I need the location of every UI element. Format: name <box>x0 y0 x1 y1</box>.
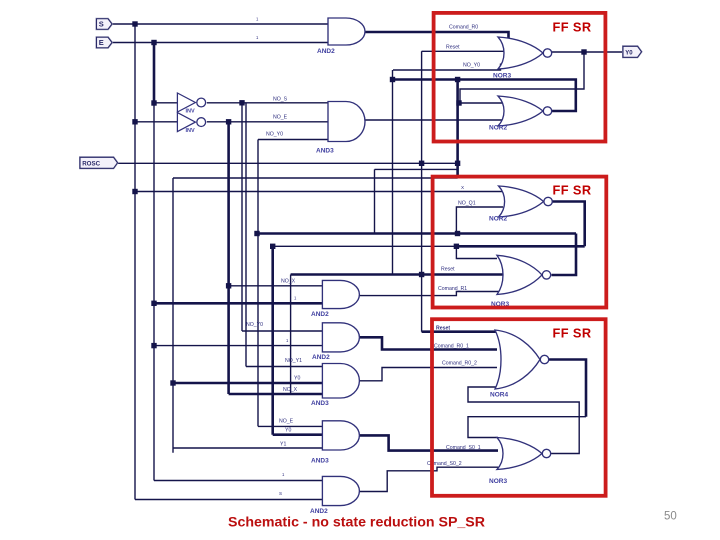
svg-text:Reset: Reset <box>441 266 455 272</box>
and-gate U1 AND2 <box>317 18 365 55</box>
svg-text:NOR3: NOR3 <box>493 73 511 80</box>
svg-text:X: X <box>461 185 464 190</box>
wire: E trunk elbow to AND2 U7 input 1 <box>154 480 322 482</box>
svg-text:Reset: Reset <box>446 44 460 50</box>
junction E trunk top <box>151 40 156 45</box>
wire: E vertical trunk x=154 <box>153 43 156 104</box>
and-gate U5 AND2 <box>311 280 359 318</box>
junction Reset trunk at box2 <box>419 272 424 277</box>
wire: Y1 feedback elbow to NOR3 U12 input 1 <box>456 246 497 258</box>
wire: E input net horizontal to AND2 U1 <box>112 42 328 44</box>
nor-gate U9 NOR2 box2 top <box>489 186 552 223</box>
svg-text:AND2: AND2 <box>317 48 335 55</box>
wire: AND3 U10 output to NOR4 U13 input 3 <box>360 368 498 381</box>
junction Y0 distribution y=383 <box>170 380 175 385</box>
junction NO_Y1 bus at box2 <box>455 231 460 236</box>
svg-text:NOR4: NOR4 <box>490 392 508 399</box>
junction Y0 at NOR2 U11 input <box>456 100 461 105</box>
wire: Q2 feedback staircase NOR4 U13 to NOR3 U14 input 1 <box>546 360 587 417</box>
svg-text:NO_S: NO_S <box>273 97 288 103</box>
wire: Reset vertical trunk x=421.6 <box>421 51 423 331</box>
output port Y0 <box>623 46 642 57</box>
wire: elbow x=258 to AND3 U6b input 1 <box>258 425 322 427</box>
nor-gate U11 NOR2 box1 bottom <box>489 96 552 132</box>
highlight box FF SR 1 <box>434 13 606 142</box>
svg-text:NO_X: NO_X <box>283 387 298 393</box>
svg-text:Comand_S0_1: Comand_S0_1 <box>446 445 481 451</box>
wire: Reset thick into NOR3 U12 input 2 <box>291 273 503 276</box>
junction Y1 net at box2 <box>454 244 459 249</box>
wire: NO_Y1 thick bus y=233.5 <box>257 232 576 235</box>
wire: vertical x=290.6 stub <box>290 275 292 395</box>
junction Reset trunk at port wire <box>419 161 424 166</box>
wire: AND2 U6 thick output to NOR4 U13 input 2 <box>360 337 498 349</box>
svg-text:1: 1 <box>282 472 285 477</box>
wire: NO_Y0 trunk branch y=169.4 to x=374.5 <box>375 168 458 170</box>
junction NO_E trunk y=285 <box>226 283 231 288</box>
svg-text:Comand_R0_2: Comand_R0_2 <box>442 361 477 367</box>
wire: NO_Y0 thick feedback from NOR2 U11 output <box>393 80 576 112</box>
svg-text:Y1: Y1 <box>280 441 286 447</box>
svg-text:FF SR: FF SR <box>553 183 592 198</box>
svg-text:NO_E: NO_E <box>273 115 288 121</box>
junction E trunk at INV U2 input <box>151 100 156 105</box>
wire: NO_Y0 net elbow into NOR3 U8 input 3 <box>393 64 501 71</box>
svg-text:AND3: AND3 <box>311 400 329 407</box>
wire: S vertical trunk x=135 <box>134 24 136 500</box>
wire: Reset port horizontal <box>118 162 459 164</box>
svg-text:NOR2: NOR2 <box>489 125 507 132</box>
wire: Y1 net from NOR2 U9 output <box>549 202 585 247</box>
wire: INV U3 output to AND3 U4 input 2 <box>207 121 328 123</box>
wire: NO_Y2 feedback staircase NOR3 U14 to NOR4 U13 input 4 <box>468 387 579 454</box>
svg-text:Y0: Y0 <box>294 376 300 382</box>
junction S trunk top <box>132 21 137 26</box>
svg-text:AND2: AND2 <box>311 311 329 318</box>
junction NO_Y1 bus at x=257 <box>254 231 259 236</box>
svg-text:E: E <box>99 38 104 47</box>
svg-text:1: 1 <box>294 296 297 301</box>
wire: E trunk branch to AND2 U6 input 2 <box>154 345 322 347</box>
junction Y0 output node <box>581 49 586 54</box>
and-gate U4 AND3 <box>316 102 365 155</box>
junction E trunk y=345 <box>151 343 156 348</box>
wire: S input net horizontal to AND2 U1 <box>112 23 328 25</box>
svg-text:ROSC: ROSC <box>82 160 100 167</box>
highlight box FF SR 2 <box>433 177 607 308</box>
nor-gate U13 NOR4 box3 top <box>490 330 549 399</box>
svg-text:NOR3: NOR3 <box>489 478 507 485</box>
svg-text:Schematic - no state reduction: Schematic - no state reduction SP_SR <box>228 515 485 531</box>
wire: Y0 branch down from junction <box>460 52 584 103</box>
svg-text:1: 1 <box>256 35 259 40</box>
junction NO_Y0 trunk top <box>455 77 460 82</box>
svg-text:AND3: AND3 <box>316 148 334 155</box>
svg-text:NOR2: NOR2 <box>489 216 507 223</box>
nor-gate U12 NOR3 box2 bottom <box>491 255 551 308</box>
svg-text:AND3: AND3 <box>311 458 329 465</box>
junction NO_Y0 feedback <box>390 77 395 82</box>
wire: Y0 junction to NOR2 U11 input 1 <box>460 102 503 104</box>
junction Y1 trunk corner <box>270 244 275 249</box>
wire: NO_Y0 trunk elbow y=178 to x=173 <box>173 177 458 179</box>
svg-text:NO_Y0: NO_Y0 <box>463 63 480 69</box>
wire: NOR2 U9 input 2 elbow from NO_Y1 bus <box>456 207 503 234</box>
wire: Reset thick elbow into NOR4 U13 input 1 <box>422 330 497 333</box>
wire: NO_Y1 vertical x=258 <box>257 140 259 427</box>
wire: elbow x=173 to AND3 U6b input 3 <box>173 447 322 449</box>
junction NO_Y0 trunk at Reset wire <box>455 161 460 166</box>
junction S trunk at INV U3 input <box>132 119 137 124</box>
wire: INV U2 input stub <box>154 102 177 104</box>
svg-text:NO_X: NO_X <box>281 279 296 285</box>
wire: thick elbow to AND3 U10 input 3 <box>229 393 323 396</box>
svg-text:NO_Y1: NO_Y1 <box>285 358 302 364</box>
svg-text:Comand_R0: Comand_R0 <box>449 25 478 31</box>
wire: AND3 U6b thick output to NOR3 U14 input 2 <box>360 435 499 450</box>
svg-text:1: 1 <box>286 338 289 343</box>
wire: S trunk branch y=191 to NOR2 U9 input 1 <box>135 191 503 193</box>
svg-text:NO_Q1: NO_Q1 <box>458 201 476 207</box>
wire: Y1 thick vertical x=272.7 <box>271 246 274 434</box>
inverter U2 INV <box>177 93 205 114</box>
wire: NO_Y1 bus riser from NOR3 U12 output <box>552 234 577 276</box>
wire: AND3 U4 input 3 elbow from NO_Y1 vertical <box>258 139 328 141</box>
wire: NO_Y0 vertical x=392.5 <box>392 70 394 275</box>
nor-gate U8 NOR3 box1 top <box>493 37 552 80</box>
svg-text:Comand_R1: Comand_R1 <box>438 286 467 292</box>
inverter U3 INV <box>177 113 205 134</box>
svg-text:FF SR: FF SR <box>553 326 592 341</box>
wire: NO_E thick vertical x=228.6 from inverter output <box>227 122 230 394</box>
svg-text:Comand_R0_1: Comand_R0_1 <box>434 343 469 349</box>
wire: Y0 distribution vertical x=173 <box>172 178 174 453</box>
wire: Reset elbow to NOR3 U8 input 2 <box>422 50 505 52</box>
input port E <box>97 37 113 48</box>
wire: thick branch x=173 to AND3 U10 input 2 <box>173 382 322 385</box>
wire: INV U2 output to AND3 U4 input 1 <box>207 102 328 104</box>
junction E trunk y=303 <box>151 301 156 306</box>
wire: AND2 U7 output to NOR3 U14 input 3 <box>360 467 499 491</box>
svg-text:NO_Y0: NO_Y0 <box>266 132 283 138</box>
svg-text:FF SR: FF SR <box>553 20 592 35</box>
svg-text:INV: INV <box>186 108 196 114</box>
wire: AND2 U1 output thick to NOR3 U8 input 1 <box>366 32 509 41</box>
junction INV U2 output <box>239 100 244 105</box>
input port ROSC (Reset) <box>80 157 118 168</box>
wire: elbow x=246 to AND3 U10 input 1 <box>246 366 322 368</box>
svg-text:50: 50 <box>664 511 677 523</box>
wire: Y0 output net from NOR3 U8 to port <box>552 51 624 53</box>
wire: NO_S vertical x=242 from inverter output <box>241 103 243 331</box>
wire: Y1 thick elbow to AND3 U6b input 2 <box>273 433 323 436</box>
wire: branch x=228.6 to AND2 U5 input 1 <box>229 285 323 287</box>
svg-text:AND2: AND2 <box>312 354 330 361</box>
nor-gate U14 NOR3 box3 bottom <box>489 438 551 486</box>
and-gate U6 AND2 <box>312 323 359 361</box>
input port S <box>97 19 113 30</box>
junction S trunk y=191 <box>132 189 137 194</box>
svg-text:1: 1 <box>256 17 259 22</box>
svg-text:NO_E: NO_E <box>279 419 294 425</box>
wire: AND3 U4 output to NOR2 U11 input 2 <box>366 119 504 121</box>
svg-text:Reset: Reset <box>436 325 450 331</box>
wire: AND2 U5 output to NOR3 U12 input 3 <box>360 292 504 296</box>
wire: NO_S vertical x=246 <box>245 103 247 367</box>
wire: NO_Y0 thick vertical x=457.6 down to trunk elbows <box>456 80 459 179</box>
wire: S trunk bottom elbow to AND2 U7 input 2 <box>135 499 322 501</box>
highlight box FF SR 3 <box>432 319 606 496</box>
wire: vertical x=374.5 down to NO_Y1 bus <box>374 169 376 233</box>
svg-text:S: S <box>279 491 282 496</box>
svg-text:S: S <box>99 20 104 29</box>
svg-text:INV: INV <box>186 128 196 134</box>
svg-text:NO_Y0: NO_Y0 <box>246 322 263 328</box>
and-gate U7 AND2 <box>310 476 359 515</box>
wire: E trunk branch thick to AND2 U5 input 2 <box>154 302 322 305</box>
wire: INV U3 input stub <box>135 121 177 123</box>
svg-text:Y0: Y0 <box>625 50 633 56</box>
wire: elbow x=242 to AND2 U6 input 1 <box>242 330 322 332</box>
and-gate U6b AND3 <box>311 421 359 465</box>
and-gate U10 AND3 <box>311 364 359 408</box>
junction INV U3 output <box>226 119 231 124</box>
wire: Y1 horizontal y=246.3 <box>456 245 584 248</box>
svg-text:Y0: Y0 <box>285 427 291 433</box>
